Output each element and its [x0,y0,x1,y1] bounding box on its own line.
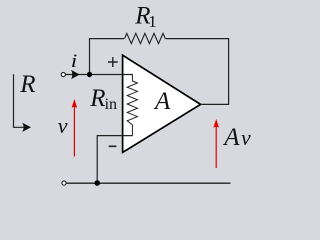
svg-text:1: 1 [148,12,157,31]
svg-text:A: A [222,124,240,151]
svg-text:R: R [89,85,105,112]
svg-text:v: v [241,125,251,150]
svg-text:i: i [71,51,78,72]
svg-text:in: in [105,96,117,113]
svg-text:v: v [58,113,68,138]
svg-text:A: A [153,88,171,115]
svg-text:R: R [19,71,35,98]
